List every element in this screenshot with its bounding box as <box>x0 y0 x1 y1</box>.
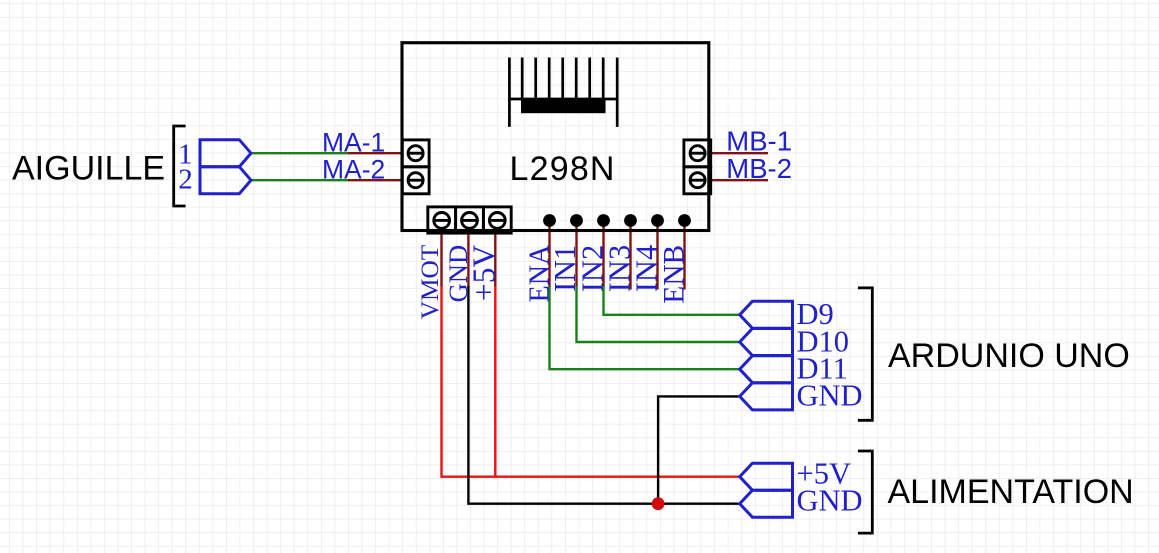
pin stub IN2 <box>602 224 604 287</box>
svg-text:VMOT: VMOT <box>416 244 444 319</box>
svg-text:GND: GND <box>797 379 863 413</box>
connector pin D11 (Arduino) <box>740 356 793 383</box>
svg-text:L298N: L298N <box>510 150 616 188</box>
bracket ARDUNIO UNO <box>858 288 872 420</box>
svg-text:ARDUNIO UNO: ARDUNIO UNO <box>888 337 1130 375</box>
wire VMOT to +5V supply (red) <box>442 286 740 477</box>
terminal block MB (right) <box>684 140 711 194</box>
pin stub IN3 <box>629 224 631 290</box>
wire AIGUILLE pin1 to MA-1 (green) <box>251 152 348 154</box>
pin stub ENA <box>548 224 550 287</box>
svg-text:MA-1: MA-1 <box>322 127 385 157</box>
svg-text:ALIMENTATION: ALIMENTATION <box>888 473 1134 511</box>
wire AIGUILLE pin2 to MA-2 (green) <box>251 179 348 181</box>
svg-text:+5V: +5V <box>467 245 502 302</box>
connector pin D10 (Arduino) <box>740 329 793 356</box>
pin stub ENB <box>683 224 685 290</box>
svg-text:2: 2 <box>178 163 193 195</box>
wire IN1 to D10 (green) <box>577 286 740 342</box>
wire +5V terminal down to +5V rail (red) <box>494 286 496 477</box>
module U1 L298N body <box>402 43 709 231</box>
terminal block MA (left) <box>402 140 429 194</box>
bracket ALIMENTATION <box>858 451 872 533</box>
wire Arduino GND down to GND net (black) <box>658 396 740 503</box>
terminal block power VMOT/GND/+5V (bottom) <box>428 207 511 233</box>
svg-text:MB-1: MB-1 <box>726 125 792 156</box>
wire IN2 to D9 (green) <box>604 286 740 315</box>
wire MA-1 into terminal (dark red) <box>348 152 402 154</box>
wire MB-1 (dark red) <box>710 152 768 154</box>
pin stub +5V <box>494 233 496 287</box>
junction GND net <box>652 497 665 510</box>
wire MB-2 (dark red) <box>710 179 768 181</box>
bracket AIGUILLE <box>174 126 186 206</box>
pin stub VMOT <box>440 233 442 287</box>
svg-text:AIGUILLE: AIGUILLE <box>12 150 165 188</box>
connector J1 AIGUILLE pin 1 <box>200 140 251 167</box>
connector pin +5V (supply) <box>740 463 793 490</box>
svg-text:GND: GND <box>797 484 863 518</box>
wire ENA to D11 (green) <box>550 286 740 369</box>
connector pin GND (supply) <box>740 490 793 517</box>
heatsink fins <box>509 58 617 127</box>
svg-text:MA-2: MA-2 <box>322 154 385 184</box>
wire MA-2 into terminal (dark red) <box>348 179 402 181</box>
svg-text:ENB: ENB <box>659 245 691 304</box>
heatsink base bar <box>521 99 606 113</box>
connector J1 AIGUILLE pin 2 <box>200 167 251 194</box>
pin header dots ENA IN1 IN2 IN3 IN4 ENB <box>543 214 691 227</box>
connector pin D9 (Arduino) <box>740 301 793 328</box>
wire GND terminal to supply GND (black) <box>468 286 739 504</box>
connector pin GND (Arduino) <box>740 383 793 410</box>
pin stub GND <box>467 233 469 287</box>
pin stub IN1 <box>575 224 577 287</box>
pin stub IN4 <box>656 224 658 290</box>
svg-text:MB-2: MB-2 <box>726 153 792 184</box>
